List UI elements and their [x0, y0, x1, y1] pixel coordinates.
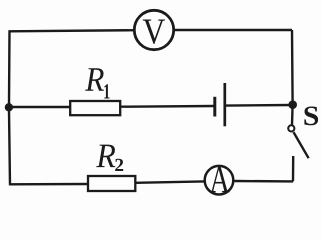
wire: ammeter to bottom-right corner [235, 180, 294, 183]
battery cell: long plate [223, 83, 226, 126]
resistor R1 [70, 101, 120, 115]
label R1 [85, 68, 109, 98]
label S [304, 107, 318, 126]
wire: right vertical from top corner down to junction [291, 30, 294, 102]
junction node (left) [5, 103, 13, 111]
junction node (right) [288, 100, 297, 109]
wire: right junction down to switch pivot [291, 105, 294, 125]
switch S pivot (open circle) [288, 125, 294, 131]
label R2 [96, 145, 123, 171]
wire: left junction to resistor R1 [9, 106, 71, 108]
wire: switch fixed contact up from bottom-right corner [292, 156, 295, 181]
wire: battery to right junction [226, 104, 292, 107]
switch blade (open) [294, 132, 309, 158]
wire: bottom-left corner to resistor R2 [10, 183, 88, 186]
resistor R2 [88, 176, 135, 191]
wire: left vertical from junction down to bottom-left corner [9, 110, 10, 185]
wire: voltmeter to top-right corner [174, 29, 292, 31]
battery cell: short plate [213, 97, 216, 117]
voltmeter V [134, 10, 173, 49]
wire: left vertical from top corner down to left junction [8, 30, 11, 104]
wire: resistor R2 to ammeter [136, 181, 205, 182]
wire: top-left corner to voltmeter [10, 30, 135, 31]
ammeter A [205, 166, 234, 195]
wire: R1 to battery [120, 105, 214, 108]
